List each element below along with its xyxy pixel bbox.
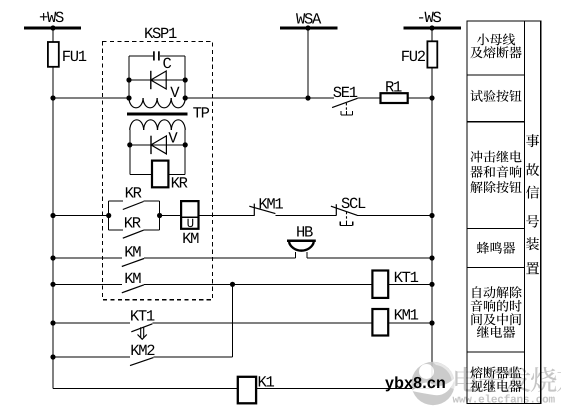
wire row F left xyxy=(53,356,130,358)
wire row G left xyxy=(53,388,238,390)
node diode1 right xyxy=(183,77,188,82)
fuse FU2 xyxy=(401,41,438,67)
wire secondary left leg xyxy=(129,130,131,174)
wire KM1 to right rail xyxy=(388,322,432,324)
fuse FU1 xyxy=(48,42,87,67)
wire row C right xyxy=(307,257,432,259)
wire right rail xyxy=(431,28,433,389)
wire row A left xyxy=(53,97,129,99)
svg-text:KM: KM xyxy=(124,270,141,288)
svg-text:KM: KM xyxy=(182,230,199,248)
legend column text accident signal device xyxy=(526,134,539,274)
contact KM row D xyxy=(122,270,144,293)
svg-text:U: U xyxy=(187,217,195,231)
wire row E left xyxy=(53,322,130,324)
watermark url xyxy=(453,394,556,407)
svg-text:www.elecfans.com: www.elecfans.com xyxy=(453,394,556,407)
legend row4 text xyxy=(477,242,515,254)
node row C right rail xyxy=(429,255,434,260)
wire KR to KM coil xyxy=(160,215,182,217)
node TP primary right xyxy=(183,95,188,100)
pushbutton SCL NC xyxy=(331,195,366,225)
watermark logo circle xyxy=(411,362,455,405)
node row C left rail xyxy=(50,255,55,260)
bus WSA xyxy=(280,11,338,29)
transformer TP primary winding xyxy=(129,98,185,108)
svg-text:HB: HB xyxy=(296,223,313,241)
pushbutton SE1 NO xyxy=(332,84,358,115)
legend row1 text xyxy=(470,33,521,58)
svg-text:C: C xyxy=(163,55,172,73)
watermark text elecfans big xyxy=(455,367,561,393)
contact KT1 delayed xyxy=(130,308,155,340)
wire R1 to right rail xyxy=(408,97,432,99)
impulse relay KSP1 boundary xyxy=(103,25,213,300)
svg-text:SE1: SE1 xyxy=(333,84,358,102)
contact KR lower xyxy=(109,201,160,238)
contact KM row C xyxy=(122,244,144,267)
node diode1 left xyxy=(126,77,131,82)
contact KM1 NC xyxy=(249,196,283,216)
resistor R1 xyxy=(381,79,408,103)
svg-text:KT1: KT1 xyxy=(130,308,155,326)
svg-text:KR: KR xyxy=(171,174,188,192)
relay coil KR xyxy=(130,161,188,193)
wire row A to R1 xyxy=(358,97,381,99)
wire cap right leg xyxy=(184,56,186,98)
site label ybx8.cn xyxy=(385,375,446,392)
wire secondary right leg xyxy=(184,130,186,174)
node row F left rail xyxy=(50,354,55,359)
wire SCL to right rail xyxy=(357,215,432,217)
svg-text:KM2: KM2 xyxy=(130,342,155,360)
legend row6 text xyxy=(470,366,521,392)
node row B right rail xyxy=(429,213,434,218)
wire row F right xyxy=(153,356,232,358)
diode V primary xyxy=(129,71,185,102)
svg-text:FU2: FU2 xyxy=(401,48,426,66)
node KR left xyxy=(106,213,111,218)
node row E right rail xyxy=(429,320,434,325)
svg-text:KR: KR xyxy=(124,214,141,232)
wire KT1 to right rail xyxy=(388,283,432,285)
wire left rail xyxy=(52,28,54,389)
wire KM1 to SCL xyxy=(275,215,336,217)
node row A right rail xyxy=(429,95,434,100)
svg-text:ybx8.cn: ybx8.cn xyxy=(385,375,446,392)
svg-text:KSP1: KSP1 xyxy=(144,25,177,43)
node row D middle link xyxy=(230,282,235,287)
node row A left rail xyxy=(50,95,55,100)
capacitor C loop xyxy=(129,51,185,73)
wire KM coil to KM1 xyxy=(199,215,255,217)
node -WS junction xyxy=(429,25,434,30)
node KR right xyxy=(157,213,162,218)
buzzer HB xyxy=(287,223,316,258)
contact KR upper xyxy=(109,184,160,230)
node row E left rail xyxy=(50,320,55,325)
wire row G right xyxy=(256,388,432,390)
relay coil KT1 xyxy=(372,269,418,298)
svg-text:+WS: +WS xyxy=(39,9,64,27)
bus -WS xyxy=(404,9,462,28)
legend table frame xyxy=(467,21,541,404)
relay coil K1 xyxy=(238,374,275,404)
wire WSA drop xyxy=(307,28,309,98)
contact KM2 xyxy=(130,342,155,366)
wire row C left xyxy=(53,257,122,259)
wire row E mid xyxy=(152,322,372,324)
svg-text:KM1: KM1 xyxy=(394,307,419,325)
svg-text:-WS: -WS xyxy=(417,9,442,27)
node diode2 left xyxy=(127,142,132,147)
bus +WS xyxy=(24,9,81,28)
legend row5 text xyxy=(471,286,522,338)
wire row D left xyxy=(53,283,122,285)
wire middle link xyxy=(232,284,234,357)
node row D left rail xyxy=(50,282,55,287)
wire row D mid xyxy=(144,283,372,285)
svg-text:R1: R1 xyxy=(385,79,402,97)
node WSA junction xyxy=(305,25,310,30)
wire row B left xyxy=(53,215,109,217)
transformer TP core xyxy=(127,105,210,123)
legend row2 text xyxy=(470,90,521,102)
svg-text:TP: TP xyxy=(193,105,210,123)
relay coil KM with counter xyxy=(181,201,199,248)
node TP primary left xyxy=(126,95,131,100)
node row B left rail xyxy=(50,213,55,218)
wire row C mid xyxy=(144,257,296,259)
svg-text:KM1: KM1 xyxy=(258,196,283,214)
relay coil KM1 xyxy=(372,307,418,336)
wire row A mid xyxy=(185,97,334,99)
node +WS junction xyxy=(50,25,55,30)
svg-text:KM: KM xyxy=(124,244,141,262)
legend row3 text xyxy=(470,151,521,194)
svg-text:SCL: SCL xyxy=(341,195,366,213)
svg-text:KR: KR xyxy=(125,184,142,202)
node row D right rail xyxy=(429,282,434,287)
node row A WSA xyxy=(305,95,310,100)
transformer TP secondary winding xyxy=(130,120,185,130)
svg-text:FU1: FU1 xyxy=(62,48,87,66)
wire cap left leg xyxy=(128,56,130,98)
node diode2 right xyxy=(183,142,188,147)
diode V secondary xyxy=(130,130,185,154)
